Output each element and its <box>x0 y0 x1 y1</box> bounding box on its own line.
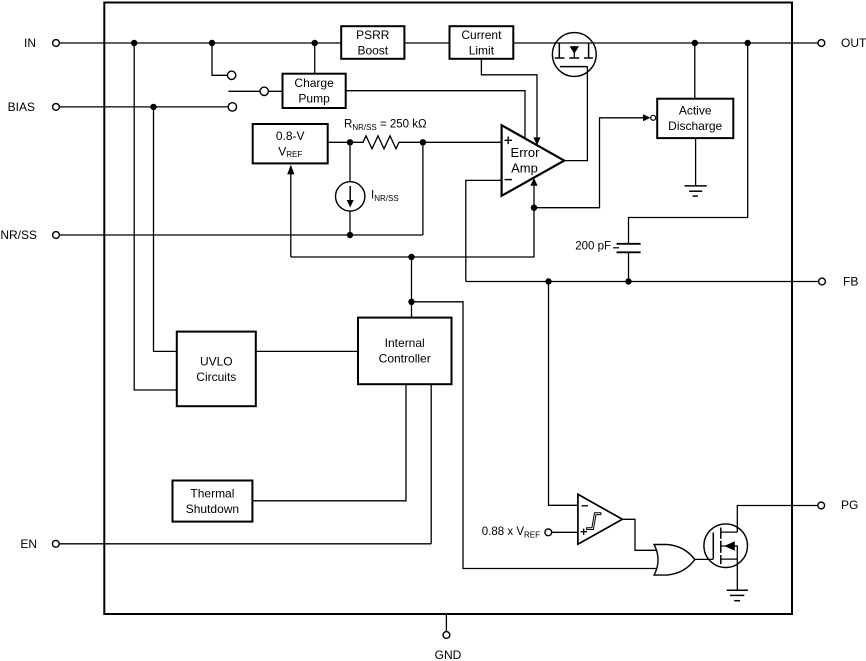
svg-text:Boost: Boost <box>357 43 388 57</box>
chip outline border <box>104 3 792 615</box>
wire NR/SS line <box>59 234 423 236</box>
block Thermal Shutdown <box>173 481 253 522</box>
svg-text:Controller: Controller <box>379 352 431 366</box>
node FB cap junction <box>625 278 631 284</box>
wire reference to internal controller <box>411 257 413 318</box>
svg-text:Shutdown: Shutdown <box>186 502 239 516</box>
svg-text:Current: Current <box>461 28 502 42</box>
wire pass FET to OUT rail <box>596 42 818 44</box>
wire resistor to error amp + input <box>423 141 502 143</box>
pin EN terminal <box>20 537 59 551</box>
node IN junction 2 <box>209 40 215 46</box>
svg-text:200 pF: 200 pF <box>575 241 611 253</box>
wire UVLO to internal controller <box>256 350 358 352</box>
wire cap to FB line <box>628 252 630 281</box>
node reference rail junction <box>408 254 414 260</box>
wire IN feed to charge pump <box>314 43 316 74</box>
wire discharge control <box>534 114 656 207</box>
svg-text:Discharge: Discharge <box>668 119 722 133</box>
svg-text:Limit: Limit <box>469 43 495 57</box>
node BIAS junction <box>150 104 156 110</box>
comparator power good <box>578 494 623 544</box>
svg-text:FB: FB <box>843 275 858 289</box>
wire charge pump output to error amp <box>346 91 525 140</box>
wire error amp output to gate <box>564 67 587 161</box>
switch pole to charge pump <box>228 87 282 95</box>
node FB comparator junction <box>545 278 551 284</box>
wire BIAS line <box>59 106 228 108</box>
wire 0.88 VREF to comparator plus <box>552 531 578 533</box>
svg-text:Pump: Pump <box>298 92 330 106</box>
ground active discharge <box>685 186 707 196</box>
wire Current Limit to pass FET <box>513 42 552 44</box>
block PSRR Boost <box>341 26 404 59</box>
op-amp Error Amp <box>502 125 565 196</box>
pin BIAS terminal <box>8 100 60 114</box>
resistor RNR/SS <box>350 136 423 149</box>
wire resistor right to NR/SS line <box>422 142 424 235</box>
wire IN rail <box>59 42 341 44</box>
svg-text:Charge: Charge <box>294 76 334 90</box>
svg-text:OUT: OUT <box>841 36 866 50</box>
svg-text:GND: GND <box>435 648 462 661</box>
wire VREF enable arrow <box>287 165 294 257</box>
wire internal controller to EN line <box>430 384 432 544</box>
svg-text:NR/SS: NR/SS <box>0 228 37 242</box>
block Active Discharge <box>657 99 733 138</box>
block UVLO Circuits <box>177 332 256 407</box>
transistor PG FET open drain <box>704 524 748 568</box>
svg-text:UVLO: UVLO <box>200 354 233 368</box>
node NR/SS junction <box>347 232 353 238</box>
wire PSRR Boost to Current Limit <box>404 42 449 44</box>
pin GND terminal <box>435 614 462 661</box>
block 0.8-V VREF <box>253 124 328 163</box>
node error amp output sense junction <box>531 205 537 211</box>
node IN junction 3 <box>312 40 318 46</box>
wire comparator output to OR gate <box>622 519 658 550</box>
wire FB line <box>466 281 819 283</box>
node reference to controller junction <box>408 299 414 305</box>
svg-text:Thermal: Thermal <box>190 486 234 500</box>
svg-text:Error: Error <box>511 145 541 160</box>
current source INR/SS <box>336 142 365 235</box>
wire internal controller to thermal shutdown <box>252 384 406 501</box>
block Current Limit <box>450 26 514 59</box>
wire FB to comparator minus <box>549 282 578 506</box>
node OUT junction cap <box>745 40 751 46</box>
block Charge Pump <box>283 74 346 108</box>
pin FB terminal <box>819 275 859 289</box>
node 0.88 VREF source <box>482 526 552 539</box>
switch throw contact from IN <box>212 43 236 80</box>
svg-text:EN: EN <box>20 537 37 551</box>
pin NR/SS terminal <box>0 228 59 242</box>
block Internal Controller <box>358 318 452 385</box>
svg-text:Internal: Internal <box>385 336 425 350</box>
pin IN terminal <box>24 36 59 50</box>
wire PG FET source to ground <box>736 559 738 590</box>
transistor pass FET <box>552 33 596 77</box>
wire IN sense to UVLO <box>134 43 177 390</box>
node IN junction 1 <box>131 40 137 46</box>
node OUT junction active discharge <box>692 40 698 46</box>
node VREF output junction <box>347 139 353 145</box>
wire OUT to 200pF cap <box>629 43 748 243</box>
gate OR <box>654 545 695 576</box>
capacitor 200 pF <box>575 241 640 253</box>
wire OUT to active discharge <box>694 43 696 99</box>
wire BIAS sense to UVLO <box>154 107 177 352</box>
wire controller to OR gate <box>412 302 658 569</box>
wire OR gate to PG FET gate <box>695 558 713 560</box>
svg-text:BIAS: BIAS <box>8 100 35 114</box>
wire current limit control to error amp <box>481 59 540 145</box>
svg-text:Active: Active <box>679 103 712 117</box>
switch throw contact from BIAS <box>228 103 236 111</box>
svg-text:IN: IN <box>24 36 36 50</box>
wire error amp feedback arrow <box>530 178 537 208</box>
svg-text:PG: PG <box>841 498 858 512</box>
ground PG FET <box>727 590 748 601</box>
wire active discharge to ground <box>695 138 697 186</box>
pin OUT terminal <box>818 36 866 50</box>
wire VREF output <box>328 141 350 143</box>
node resistor right junction <box>420 139 426 145</box>
svg-text:Amp: Amp <box>511 160 538 175</box>
pin PG terminal <box>818 498 859 512</box>
svg-text:PSRR: PSRR <box>356 28 390 42</box>
wire reference rail <box>291 208 534 257</box>
wire EN line <box>59 543 431 545</box>
svg-text:0.8-V: 0.8-V <box>276 129 305 143</box>
wire PG FET drain to PG pin <box>737 506 818 533</box>
wire error amp minus input <box>466 180 502 281</box>
svg-text:Circuits: Circuits <box>196 370 236 384</box>
